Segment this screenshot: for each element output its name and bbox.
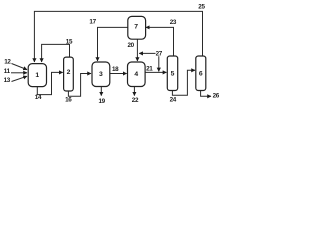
svg-text:19: 19 (98, 98, 105, 105)
svg-text:4: 4 (134, 71, 138, 78)
svg-text:7: 7 (134, 24, 138, 31)
svg-text:18: 18 (112, 66, 119, 73)
svg-text:25: 25 (198, 3, 205, 10)
svg-text:3: 3 (99, 71, 103, 78)
svg-text:6: 6 (199, 71, 203, 78)
svg-text:21: 21 (146, 66, 153, 73)
svg-text:26: 26 (213, 93, 220, 100)
svg-text:2: 2 (67, 69, 71, 76)
svg-text:11: 11 (4, 68, 11, 75)
svg-text:5: 5 (171, 71, 175, 78)
svg-text:17: 17 (89, 19, 96, 26)
svg-text:1: 1 (35, 72, 39, 79)
svg-text:13: 13 (4, 77, 11, 84)
svg-text:20: 20 (127, 42, 134, 49)
svg-text:24: 24 (170, 96, 177, 103)
svg-text:27: 27 (156, 51, 163, 58)
svg-text:15: 15 (66, 39, 73, 46)
svg-text:14: 14 (35, 94, 42, 101)
svg-text:23: 23 (170, 19, 177, 26)
svg-text:12: 12 (4, 59, 11, 66)
svg-text:22: 22 (132, 97, 139, 104)
svg-text:16: 16 (65, 97, 72, 104)
